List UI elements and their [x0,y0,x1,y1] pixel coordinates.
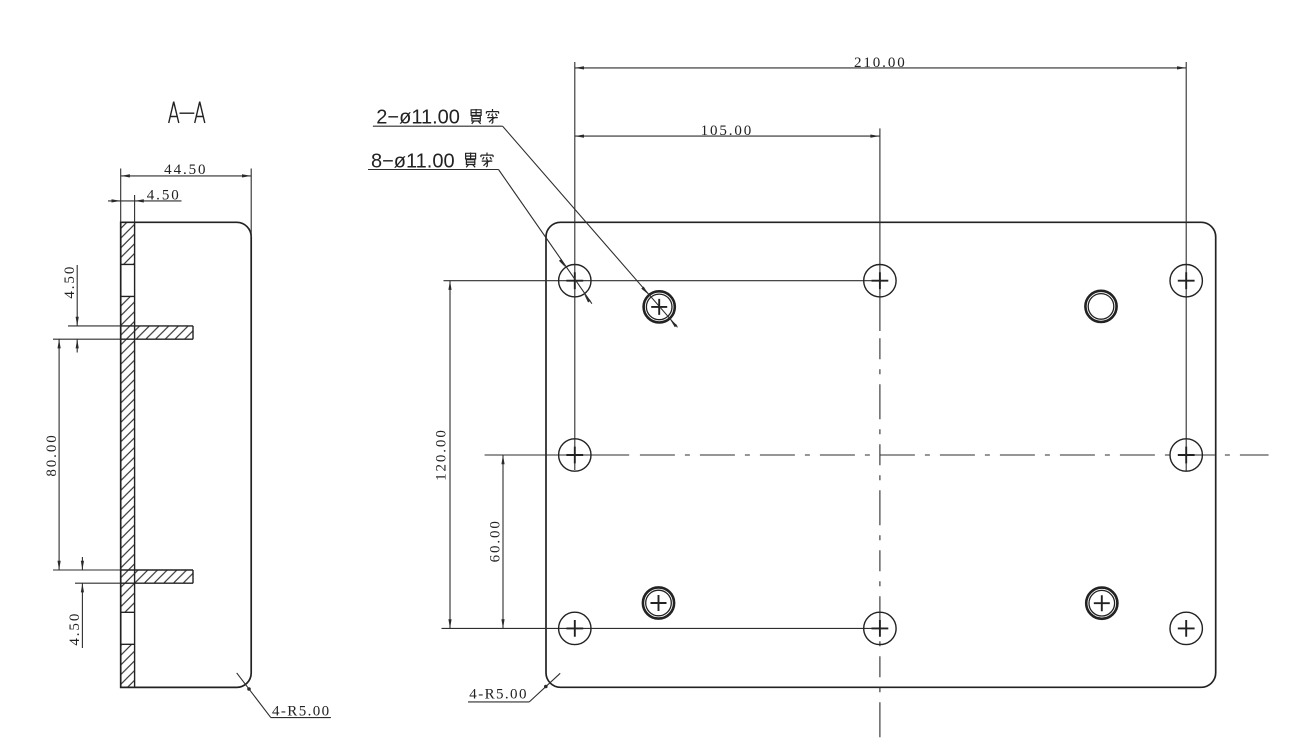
dimension 210.00 [575,55,1186,71]
8 plain holes with center crosses [559,265,1203,645]
plate outline [546,222,1216,687]
svg-text:2−ø11.00: 2−ø11.00 [376,107,460,129]
svg-text:80.00: 80.00 [44,433,60,476]
svg-text:4-R5.00: 4-R5.00 [469,686,528,702]
dimension 44.50 [121,162,252,237]
dimension 105.00 [575,123,880,139]
svg-text:44.50: 44.50 [164,162,207,178]
outline: section plate (rounded right corners) [121,222,252,687]
vertical ext through right hole column [1185,62,1187,471]
svg-text:105.00: 105.00 [701,123,754,139]
vertical ext through middle column (solid part) [879,128,881,331]
svg-text:60.00: 60.00 [488,519,504,562]
dimension 80.00 (vertical) [44,339,121,570]
strip inner edge [134,222,136,687]
vertical ext through left hole column [574,62,576,470]
dimension 4.50 (lower boss thickness, vertical) [67,557,121,648]
dimension 4.50 (upper boss thickness, vertical) [53,265,121,353]
hole gap lines in strip [121,264,135,644]
leader: 8-diam 11.00 through [368,150,592,303]
center line horizontal (dash-dot) [640,454,1269,456]
hatch fill: plate strip in section [121,222,193,687]
CJK text guan-chuan (through) for leader 8 [466,153,476,168]
svg-text:4.50: 4.50 [67,612,83,646]
dimension 120.00 (vertical) [434,281,452,629]
center line vertical (dash-dot) [879,338,881,742]
radius label 4-R5.00 (left view) [237,673,331,720]
svg-text:4.50: 4.50 [62,265,78,299]
flange boss 1 outline [121,326,193,339]
svg-text:210.00: 210.00 [854,55,907,71]
horizontal ext through top hole row [444,280,888,282]
svg-text:4.50: 4.50 [147,187,181,203]
svg-text:120.00: 120.00 [434,428,450,481]
dimension 60.00 (vertical) [488,455,505,628]
flange boss 2 outline [121,570,193,583]
hatch fill: flange bosses [135,326,193,339]
horizontal ext through middle row (solid part) [485,454,630,456]
dimension 4.50 (plate thickness, horizontal) [108,187,182,222]
leader: 2-diam 11.00 through [373,107,678,328]
section title A-A [169,102,205,123]
4 boss holes (double circles) [643,291,1118,619]
CJK text guan-chuan (through) for leader 2 [471,109,481,124]
horizontal ext through bottom hole row [442,627,889,629]
radius label 4-R5.00 (plan view) [468,673,560,702]
